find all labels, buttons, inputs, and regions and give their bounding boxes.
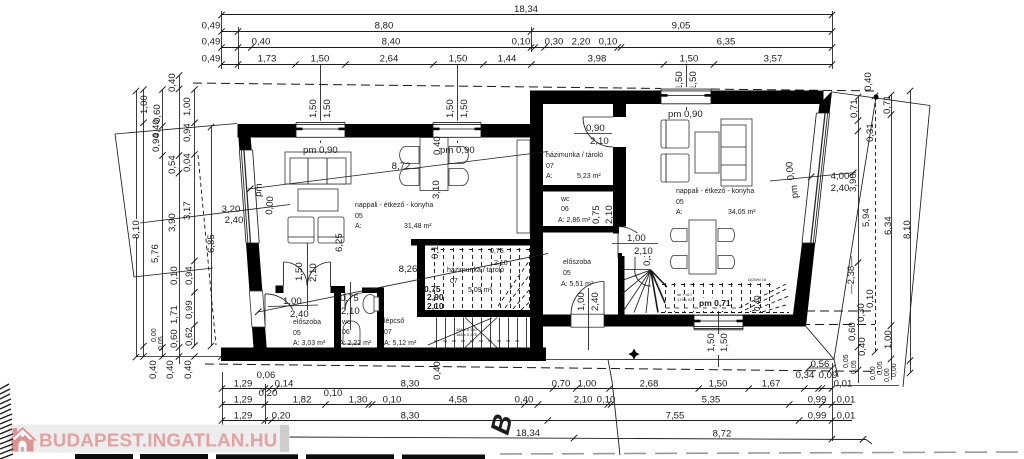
svg-text:0,40: 0,40 — [252, 37, 271, 48]
dim row 0,40/8,40/0,10/0,30/2,20/0,10/6,35 — [222, 47, 833, 49]
chain lines — [858, 97, 860, 383]
svg-text:05: 05 — [676, 199, 684, 206]
coffee table right — [695, 132, 719, 173]
svg-text:1,71: 1,71 — [169, 305, 180, 324]
dashed roof line bottom — [205, 364, 880, 372]
svg-text:—2,38—: —2,38— — [846, 256, 857, 294]
svg-text:0,75: 0,75 — [591, 205, 602, 224]
svg-text:0,71: 0,71 — [849, 99, 860, 118]
right unit top wall — [530, 91, 824, 105]
svg-text:0,75: 0,75 — [490, 248, 504, 255]
svg-text:A: 2,22 m²: A: 2,22 m² — [339, 340, 372, 347]
svg-text:1,50: 1,50 — [680, 54, 699, 65]
hazimunka door right unit — [583, 117, 628, 147]
window centerlines + 1,50 labels — [320, 65, 322, 144]
window W4 bottom right unit — [694, 311, 743, 352]
svg-text:07: 07 — [384, 329, 392, 336]
svg-text:0,60: 0,60 — [169, 329, 180, 348]
svg-text:2,10: 2,10 — [427, 301, 444, 311]
svg-text:1,50: 1,50 — [294, 262, 305, 281]
svg-text:0,40: 0,40 — [432, 136, 443, 155]
svg-text:2,40: 2,40 — [225, 215, 244, 226]
svg-text:8,10: 8,10 — [902, 220, 913, 239]
diagonal dims — [140, 205, 290, 224]
inner door right unit eloszoba/nappali — [618, 227, 650, 258]
svg-text:2,10: 2,10 — [604, 205, 615, 224]
svg-text:BUDAPEST.INGATLAN.HU: BUDAPEST.INGATLAN.HU — [39, 430, 277, 451]
wall H2 lepcso also — [417, 310, 536, 317]
double door nappali/eloszoba — [284, 240, 331, 310]
svg-text:wc: wc — [560, 196, 570, 203]
armchair right B — [661, 154, 689, 182]
wall V1 lepcso kelet — [417, 246, 425, 314]
svg-text:1,50: 1,50 — [445, 99, 456, 118]
svg-text:DOWN 16: DOWN 16 — [748, 277, 767, 282]
svg-text:3,57: 3,57 — [764, 54, 783, 65]
svg-text:0,70: 0,70 — [552, 379, 571, 390]
svg-text:3,90: 3,90 — [167, 213, 178, 232]
svg-text:0,40: 0,40 — [167, 73, 178, 92]
dim row 1,73/1,50/2,64/1,50/1,44/3,98/1,50/3,57 — [222, 64, 833, 66]
svg-text:1,50: 1,50 — [706, 333, 717, 352]
svg-text:0,00: 0,00 — [784, 161, 797, 181]
svg-text:8,40: 8,40 — [382, 37, 401, 48]
svg-text:előszoba: előszoba — [293, 319, 321, 326]
svg-text:0,34: 0,34 — [796, 370, 815, 381]
svg-text:2,40: 2,40 — [590, 292, 601, 311]
svg-text:3,20: 3,20 — [222, 204, 241, 215]
wc door left — [345, 293, 362, 310]
svg-text:8,30: 8,30 — [401, 379, 420, 390]
left unit top wall — [238, 124, 544, 138]
window W6 slanted east wall — [802, 113, 830, 243]
svg-text:3,98: 3,98 — [588, 54, 607, 65]
right unit winder stair — [622, 257, 667, 313]
row B — [222, 404, 852, 406]
svg-text:0,40: 0,40 — [148, 360, 159, 379]
svg-text:0,10: 0,10 — [383, 395, 402, 406]
right entrance recess — [571, 282, 604, 351]
svg-text:8,80: 8,80 — [375, 21, 394, 32]
svg-text:1,30: 1,30 — [349, 395, 368, 406]
svg-text:1,82: 1,82 — [293, 395, 312, 406]
chairs right table — [670, 229, 687, 242]
svg-text:pm 0,90: pm 0,90 — [668, 109, 703, 120]
roof overhang dashed top — [193, 83, 878, 91]
wall V5 R csigalepcso — [618, 253, 625, 315]
window W5 slanted west wall — [239, 150, 259, 243]
svg-text:0,40: 0,40 — [863, 72, 874, 91]
left unit bottom wall — [221, 348, 546, 362]
svg-text:0,90: 0,90 — [586, 123, 605, 134]
svg-text:5,94: 5,94 — [861, 208, 872, 227]
svg-text:2,10: 2,10 — [308, 263, 319, 282]
svg-text:07: 07 — [450, 278, 458, 285]
dining table left — [420, 138, 448, 191]
left unit upper flight (dashed) — [431, 248, 536, 310]
svg-text:pm 0,71: pm 0,71 — [699, 298, 731, 308]
svg-text:1,00: 1,00 — [578, 379, 597, 390]
section line — [608, 360, 620, 456]
svg-text:1,00: 1,00 — [139, 95, 150, 114]
right stair labels — [697, 298, 729, 308]
ticks on diagonals — [247, 170, 856, 315]
svg-text:8,30: 8,30 — [401, 411, 420, 422]
right unit straight flight (dashed) — [661, 283, 789, 313]
svg-text:1,73: 1,73 — [258, 54, 277, 65]
survey diamond — [628, 349, 639, 360]
svg-text:179 x 027: 179 x 027 — [677, 297, 695, 302]
svg-text:0,05: 0,05 — [843, 354, 850, 368]
svg-text:06: 06 — [342, 329, 350, 336]
svg-text:pm 0,90: pm 0,90 — [440, 145, 475, 156]
svg-text:0,10: 0,10 — [324, 388, 343, 399]
tick marks top rows — [218, 12, 835, 68]
svg-text:5,23 m²: 5,23 m² — [577, 173, 601, 180]
svg-text:0,10: 0,10 — [597, 395, 616, 406]
svg-text:0,00: 0,00 — [264, 196, 276, 215]
svg-text:A: 5,12 m²: A: 5,12 m² — [384, 340, 417, 347]
svg-text:4,58: 4,58 — [449, 395, 468, 406]
svg-text:3,10: 3,10 — [431, 180, 442, 199]
bottom dashed bar — [75, 454, 485, 459]
svg-text:0,10: 0,10 — [169, 266, 180, 285]
wall V3 wc nyugat — [334, 293, 341, 348]
right unit bottom wall — [543, 315, 806, 327]
svg-text:0,40: 0,40 — [515, 395, 534, 406]
svg-text:1,67: 1,67 — [762, 379, 781, 390]
left unit slanted west wall — [238, 124, 267, 348]
toilet left wc — [363, 295, 379, 314]
svg-text:0,01: 0,01 — [837, 411, 856, 422]
svg-text:1,29: 1,29 — [234, 395, 253, 406]
left stair tread numbers — [434, 340, 519, 342]
coil left edge — [0, 384, 13, 459]
svg-text:1,50: 1,50 — [719, 333, 730, 352]
wall H4 R eloszoba/nappali — [543, 226, 613, 233]
right ticks — [855, 88, 913, 376]
svg-text:2,64: 2,64 — [380, 54, 399, 65]
house icon — [8, 427, 37, 452]
dim row 8,80 / 9,05 — [222, 31, 833, 33]
svg-text:0,00: 0,00 — [884, 368, 891, 382]
right unit slanted east wall — [793, 91, 832, 327]
svg-text:2,68: 2,68 — [640, 379, 659, 390]
jamb R belso ajto — [613, 227, 619, 234]
svg-text:18,34: 18,34 — [514, 4, 539, 15]
chain lines — [136, 91, 138, 219]
armchair right A — [661, 120, 689, 148]
svg-text:2,40: 2,40 — [290, 309, 309, 320]
row C — [222, 420, 852, 422]
svg-text:0,94: 0,94 — [151, 133, 162, 152]
chairs left table — [400, 147, 419, 164]
left plot boundary — [115, 124, 237, 135]
svg-text:1,50: 1,50 — [688, 71, 699, 90]
wall H1 nappali/hatso szobak — [411, 239, 530, 246]
svg-text:5,35: 5,35 — [702, 395, 721, 406]
svg-text:188 x 0,275: 188 x 0,275 — [456, 332, 478, 337]
svg-text:wc: wc — [341, 319, 351, 326]
terrace line — [546, 358, 834, 360]
window W1 top left — [296, 121, 345, 141]
svg-text:1,50: 1,50 — [308, 99, 319, 118]
svg-text:0,31: 0,31 — [865, 123, 876, 142]
svg-text:0,40: 0,40 — [183, 360, 194, 379]
svg-text:2,10: 2,10 — [590, 136, 609, 147]
svg-text:1,44: 1,44 — [498, 54, 517, 65]
svg-text:0,40: 0,40 — [432, 361, 443, 380]
svg-text:1,50: 1,50 — [449, 54, 468, 65]
svg-text:31,48 m²: 31,48 m² — [404, 223, 432, 230]
svg-text:1,50: 1,50 — [311, 54, 330, 65]
svg-text:lépcső: lépcső — [384, 318, 404, 325]
svg-text:05: 05 — [355, 213, 363, 220]
svg-text:1,29: 1,29 — [234, 411, 253, 422]
extension verticals top — [221, 11, 223, 69]
bottom ticks — [219, 365, 866, 443]
wall V2 lepcso nyugat — [377, 288, 384, 348]
left ticks — [133, 72, 225, 360]
svg-text:0,30: 0,30 — [856, 303, 867, 322]
svg-text:0,05: 0,05 — [877, 361, 884, 375]
svg-text:4,00: 4,00 — [831, 171, 850, 182]
washbasin left wc — [343, 321, 360, 344]
svg-text:05: 05 — [563, 270, 571, 277]
svg-text:0,71: 0,71 — [882, 95, 893, 114]
svg-text:07: 07 — [546, 163, 554, 170]
svg-text:2,40: 2,40 — [831, 183, 850, 194]
svg-text:házimunka / tároló: házimunka / tároló — [546, 152, 603, 159]
svg-text:0,30: 0,30 — [545, 37, 564, 48]
stub eloszoba bal — [276, 286, 284, 294]
svg-text:nappali - étkező - konyha: nappali - étkező - konyha — [676, 188, 754, 195]
svg-text:9,05: 9,05 — [672, 21, 691, 32]
svg-text:0,20: 0,20 — [272, 411, 291, 422]
svg-text:0,09: 0,09 — [819, 370, 838, 381]
svg-text:8,72: 8,72 — [713, 429, 732, 440]
svg-text:pm 0,90: pm 0,90 — [303, 145, 338, 156]
wall H5 R hazimunka/wc — [543, 185, 626, 192]
svg-text:0,75: 0,75 — [340, 293, 359, 304]
svg-text:2,10: 2,10 — [494, 260, 508, 267]
sofa right unit — [721, 119, 752, 186]
svg-text:nappali - étkező - konyha: nappali - étkező - konyha — [355, 202, 433, 209]
svg-text:A: 5,51 m²: A: 5,51 m² — [561, 281, 594, 288]
left dashed plot line — [198, 155, 216, 345]
right plot boundary — [832, 92, 930, 106]
svg-text:1,50: 1,50 — [322, 99, 333, 118]
svg-text:5,09 m²: 5,09 m² — [468, 287, 492, 294]
svg-text:0,05: 0,05 — [851, 360, 858, 374]
svg-text:0,40: 0,40 — [753, 295, 762, 311]
svg-text:0,10: 0,10 — [599, 37, 618, 48]
svg-text:0,00: 0,00 — [870, 366, 877, 380]
svg-text:2,10: 2,10 — [341, 306, 360, 317]
wall V4 R hazimunka/nappali — [613, 104, 626, 227]
svg-text:0,01: 0,01 — [837, 395, 856, 406]
svg-text:0,99: 0,99 — [184, 300, 195, 319]
svg-text:0,10: 0,10 — [512, 37, 531, 48]
svg-text:B: B — [485, 411, 519, 437]
svg-text:1,50: 1,50 — [674, 71, 685, 90]
svg-text:1,00: 1,00 — [576, 292, 587, 311]
svg-text:1,29: 1,29 — [234, 379, 253, 390]
svg-text:0,40: 0,40 — [165, 360, 176, 379]
svg-text:A:: A: — [546, 173, 553, 180]
svg-text:6,85: 6,85 — [206, 234, 217, 253]
badge background — [8, 425, 290, 453]
dim row 18,34 — [222, 14, 833, 16]
svg-text:0,62: 0,62 — [184, 327, 195, 346]
svg-text:0,49: 0,49 — [202, 21, 221, 32]
svg-text:0,06: 0,06 — [257, 370, 276, 381]
svg-text:1,00: 1,00 — [182, 97, 193, 116]
window W3 top right — [661, 87, 711, 107]
svg-text:2,10: 2,10 — [574, 395, 593, 406]
svg-text:0,49: 0,49 — [202, 54, 221, 65]
extension verticals bottom — [222, 372, 224, 441]
svg-text:8,26: 8,26 — [399, 264, 418, 275]
svg-text:2,20: 2,20 — [572, 37, 591, 48]
svg-text:0,49: 0,49 — [202, 37, 221, 48]
node dot — [873, 94, 878, 99]
row A — [222, 388, 832, 390]
svg-text:1,00: 1,00 — [627, 233, 646, 244]
svg-text:05: 05 — [293, 330, 301, 337]
svg-text:0,94: 0,94 — [184, 266, 195, 285]
svg-text:0,04: 0,04 — [182, 153, 193, 172]
svg-text:18,34: 18,34 — [516, 428, 541, 439]
right dashed horizontals — [806, 310, 875, 312]
svg-text:6,35: 6,35 — [717, 37, 736, 48]
svg-text:A:: A: — [676, 209, 683, 216]
armchair left A — [288, 217, 314, 243]
svg-text:1,50: 1,50 — [709, 379, 728, 390]
svg-text:0,00: 0,00 — [891, 363, 898, 377]
svg-text:előszoba: előszoba — [563, 259, 591, 266]
svg-text:8,72: 8,72 — [392, 161, 411, 172]
armchair left B — [318, 217, 344, 243]
coffee table left — [298, 189, 338, 211]
row D 18,34 / 8,72 — [212, 437, 866, 440]
svg-text:1,00: 1,00 — [883, 330, 894, 349]
svg-text:0,99: 0,99 — [808, 411, 827, 422]
sofa left unit — [285, 152, 351, 184]
wall H3a wc eszak bal — [331, 286, 346, 293]
svg-text:pm: pm — [253, 183, 265, 197]
left unit lower flight (solid) — [428, 318, 527, 348]
svg-text:1,50: 1,50 — [459, 99, 470, 118]
svg-text:5,76: 5,76 — [150, 244, 161, 263]
svg-text:6,25: 6,25 — [334, 233, 345, 252]
svg-text:06: 06 — [561, 206, 569, 213]
right stair tread numbers — [666, 307, 736, 309]
svg-text:A:: A: — [355, 223, 362, 230]
svg-text:0,10: 0,10 — [430, 240, 441, 259]
svg-text:A: 2,86 m²: A: 2,86 m² — [558, 217, 591, 224]
wall H3b wc eszak jobb — [362, 288, 384, 294]
svg-text:6,34: 6,34 — [883, 216, 894, 235]
party wall — [530, 91, 543, 362]
svg-text:pm: pm — [789, 184, 801, 198]
dining table right — [689, 220, 716, 274]
svg-text:0,00: 0,00 — [151, 328, 158, 342]
window W2 top mid — [433, 121, 481, 141]
svg-text:7,55: 7,55 — [666, 411, 685, 422]
kitchen counter left — [517, 140, 530, 233]
door left entrance recess — [249, 291, 292, 327]
svg-text:A: 3,03 m²: A: 3,03 m² — [293, 340, 326, 347]
svg-text:3,96: 3,96 — [848, 173, 859, 192]
svg-text:34,05 m²: 34,05 m² — [728, 209, 756, 216]
svg-text:2,10: 2,10 — [634, 246, 653, 257]
